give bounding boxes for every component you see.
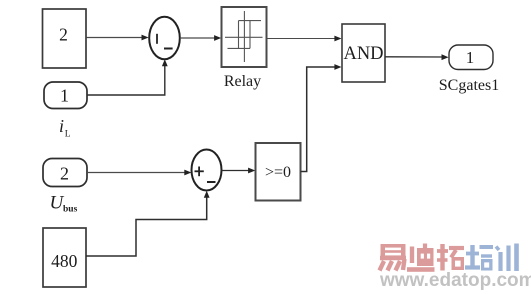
- constant block 480: [43, 228, 86, 287]
- watermark chinese char 培 (blue): [465, 245, 493, 271]
- sum block 2: [192, 150, 222, 191]
- constant block "2" (bottom): [43, 159, 87, 187]
- label i_L: [59, 116, 71, 140]
- svg-text:1: 1: [466, 48, 475, 67]
- svg-text:1: 1: [60, 86, 69, 106]
- label Relay: [224, 73, 261, 90]
- label U_bus: [50, 193, 78, 215]
- wire: inport 1 to sum1 bottom: [87, 59, 168, 95]
- compare block >=0: [256, 143, 301, 201]
- wire: relay to AND input 1: [267, 36, 342, 42]
- sum block 1: [149, 17, 180, 59]
- AND block: [342, 24, 385, 82]
- wire: compare block to AND input 2: [301, 64, 342, 171]
- relay block: [222, 7, 267, 67]
- svg-text:2: 2: [59, 25, 68, 45]
- watermark chinese char 训 (blue): [496, 244, 517, 272]
- watermark chinese char 易 (pink): [380, 244, 407, 271]
- wire: block 2 to sum1: [87, 35, 149, 41]
- wire: sum2 to compare block: [222, 168, 256, 174]
- svg-text:L: L: [65, 130, 71, 140]
- watermark chinese char 迪 (pink): [407, 244, 435, 272]
- watermark chinese char 拓 (pink): [437, 244, 464, 271]
- svg-text:AND: AND: [343, 44, 383, 64]
- constant block "2" (top): [43, 9, 87, 68]
- wire: AND to outport: [385, 54, 449, 60]
- wire: 480 to sum2 bottom: [86, 191, 210, 256]
- svg-text:SCgates1: SCgates1: [439, 77, 499, 94]
- svg-text:www.edatop.com: www.edatop.com: [379, 270, 531, 291]
- svg-text:480: 480: [51, 251, 78, 271]
- inport block "1": [44, 82, 87, 109]
- svg-text:Relay: Relay: [224, 73, 261, 90]
- outport block "1" SCgates1: [449, 45, 493, 70]
- wire: sum1 to relay: [180, 35, 221, 41]
- svg-text:2: 2: [60, 164, 69, 184]
- label SCgates1: [439, 77, 499, 94]
- svg-text:bus: bus: [63, 205, 78, 215]
- wire: bottom 2 to sum2: [87, 170, 191, 176]
- svg-text:i: i: [59, 116, 64, 136]
- svg-text:>=0: >=0: [265, 164, 291, 181]
- watermark www.edatop.com: [379, 270, 531, 291]
